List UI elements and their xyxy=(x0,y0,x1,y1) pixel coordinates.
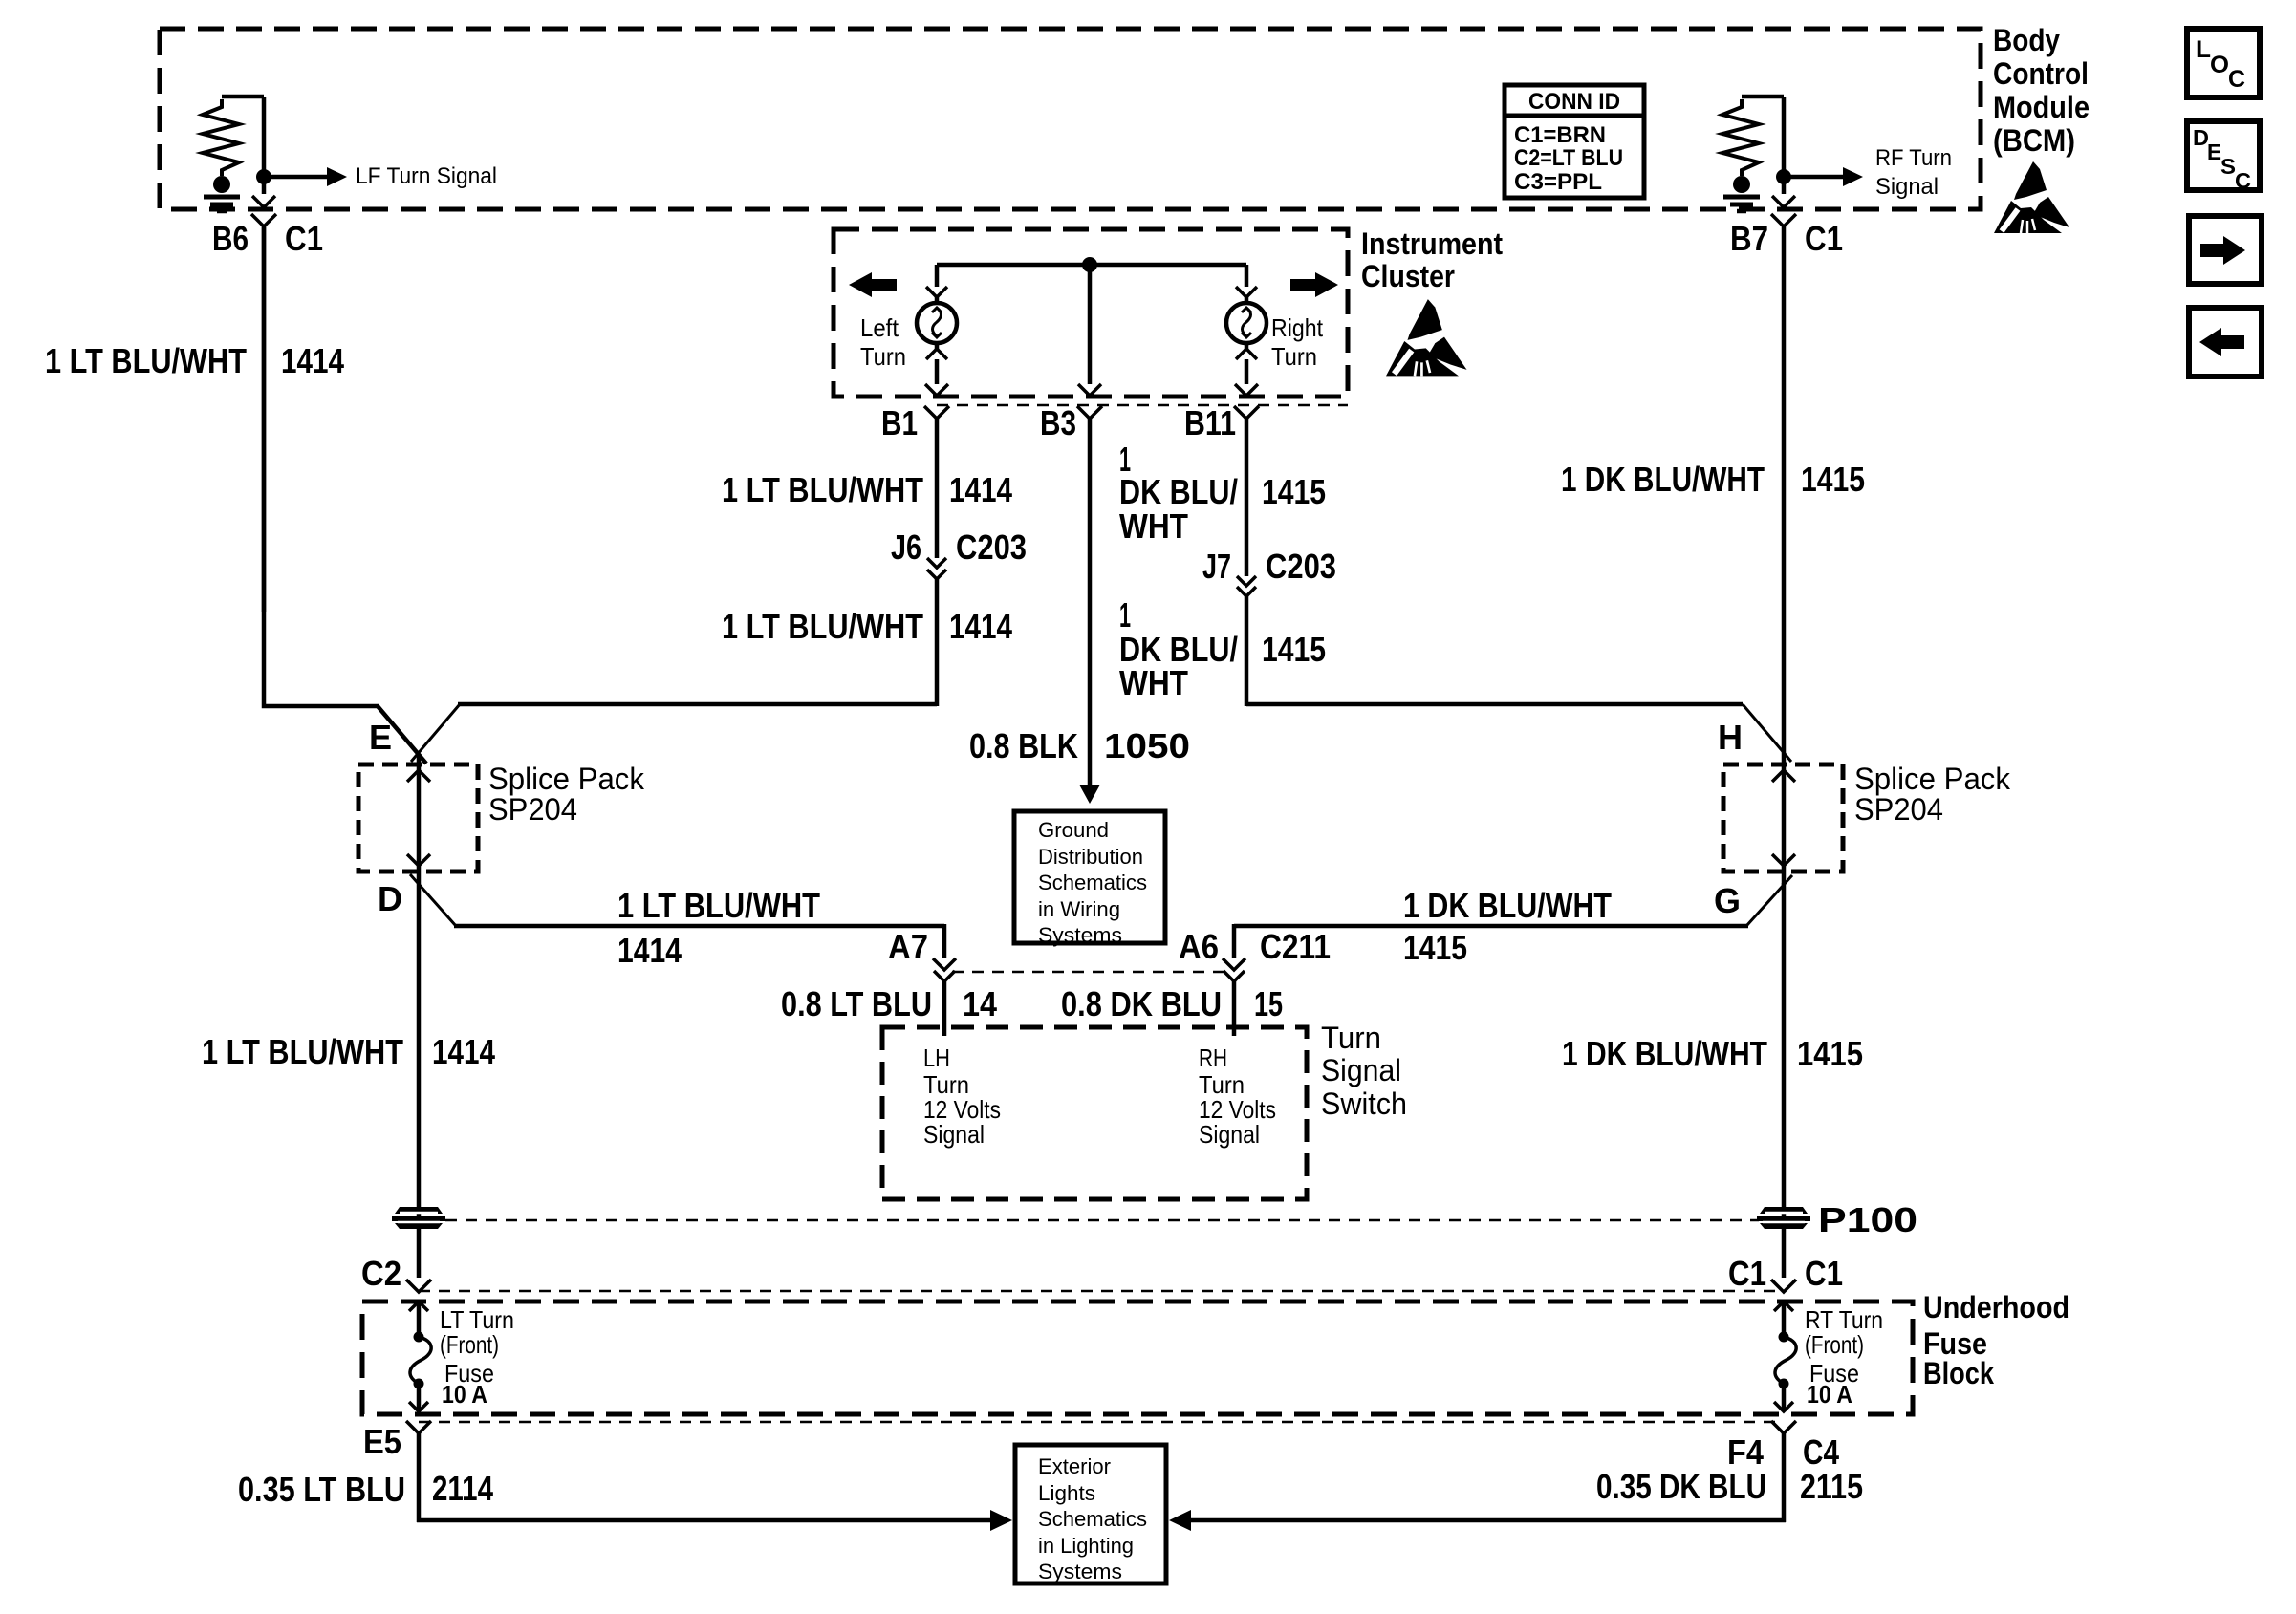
connector C2 left xyxy=(361,1254,431,1293)
svg-text:D: D xyxy=(378,879,402,918)
label 1 DK BLU/WHT 1415 lower right bus xyxy=(1562,1034,1863,1073)
svg-text:Turn: Turn xyxy=(1271,342,1317,371)
svg-text:C2=LT BLU: C2=LT BLU xyxy=(1514,145,1623,171)
svg-text:C1: C1 xyxy=(1805,219,1843,258)
svg-text:1415: 1415 xyxy=(1262,472,1326,511)
svg-text:0.8 DK BLU: 0.8 DK BLU xyxy=(1061,984,1222,1023)
svg-text:Ground: Ground xyxy=(1038,818,1109,842)
wire 1415 right bus from B7 xyxy=(1782,226,1787,752)
wire left bus to E splice xyxy=(264,225,426,764)
svg-text:0.8 BLK: 0.8 BLK xyxy=(969,726,1078,765)
label RT Turn (Front) Fuse 10 A xyxy=(1805,1305,1883,1409)
wire D to A7 xyxy=(410,874,944,958)
svg-text:1414: 1414 xyxy=(617,931,682,970)
svg-text:1414: 1414 xyxy=(432,1032,495,1071)
junction dot LF xyxy=(256,169,271,184)
svg-text:C: C xyxy=(2235,168,2251,193)
svg-text:1415: 1415 xyxy=(1403,928,1467,967)
svg-text:Splice Pack: Splice Pack xyxy=(488,762,645,796)
Ground Distribution Schematics box xyxy=(1014,811,1165,947)
connector pin B11 xyxy=(1184,403,1259,442)
svg-text:C203: C203 xyxy=(1266,547,1336,586)
svg-text:1 LT BLU/WHT: 1 LT BLU/WHT xyxy=(617,886,820,925)
svg-text:C1: C1 xyxy=(285,219,323,258)
wire BCM right vertical B7 xyxy=(1782,97,1787,194)
fuse LT Turn (Front) Fuse 10 A xyxy=(409,1302,431,1411)
svg-text:Lights: Lights xyxy=(1038,1481,1095,1505)
resistor in BCM left (LF driver) xyxy=(203,97,264,176)
svg-text:C2: C2 xyxy=(361,1254,401,1293)
svg-text:1 DK BLU/WHT: 1 DK BLU/WHT xyxy=(1403,886,1612,925)
ESD symbol at Instrument Cluster xyxy=(1386,299,1467,376)
svg-text:0.35 LT BLU: 0.35 LT BLU xyxy=(238,1470,405,1509)
icon next-page arrow box xyxy=(2189,216,2262,284)
svg-text:WHT: WHT xyxy=(1119,506,1188,546)
wire B1 to J6 xyxy=(935,419,940,558)
svg-text:C: C xyxy=(2228,66,2245,93)
wire splice left vertical xyxy=(407,754,430,1278)
svg-text:(BCM): (BCM) xyxy=(1993,123,2075,158)
wire B3 to ground distribution xyxy=(1079,419,1100,804)
label P100 xyxy=(1818,1200,1917,1239)
label 0.8 DK BLU 15 xyxy=(1061,984,1283,1023)
icon DESC box xyxy=(2187,121,2260,193)
svg-text:Underhood: Underhood xyxy=(1923,1290,2069,1324)
svg-text:10 A: 10 A xyxy=(442,1380,487,1409)
wire B3 inside cluster xyxy=(1078,265,1101,396)
wire A6 into switch xyxy=(1232,981,1237,1036)
svg-text:H: H xyxy=(1718,718,1743,757)
svg-text:G: G xyxy=(1714,881,1741,920)
svg-text:Systems: Systems xyxy=(1038,1560,1122,1583)
icon prev-page arrow box xyxy=(2189,308,2262,377)
grommet P100 right xyxy=(1757,1207,1810,1229)
label Turn Signal Switch xyxy=(1321,1021,1407,1121)
svg-text:0.8 LT BLU: 0.8 LT BLU xyxy=(781,984,932,1023)
svg-text:(Front): (Front) xyxy=(1805,1330,1864,1359)
svg-text:A7: A7 xyxy=(888,927,928,966)
svg-text:1414: 1414 xyxy=(949,470,1012,509)
svg-text:Block: Block xyxy=(1923,1356,1994,1390)
cluster connector dashed line xyxy=(937,404,1348,407)
svg-text:(Front): (Front) xyxy=(440,1330,499,1359)
svg-text:B6: B6 xyxy=(212,219,249,258)
wire 2115 to exterior lights xyxy=(1169,1433,1786,1531)
label Splice Pack SP204 left xyxy=(488,762,645,827)
ground G-BCM-left xyxy=(204,176,240,211)
svg-text:C203: C203 xyxy=(956,527,1027,567)
label LH Turn 12 Volts Signal xyxy=(923,1044,1001,1149)
label 0.35 LT BLU 2114 xyxy=(238,1469,493,1509)
svg-text:WHT: WHT xyxy=(1119,663,1188,702)
svg-text:1 LT BLU/WHT: 1 LT BLU/WHT xyxy=(722,607,923,646)
wire A7 into switch xyxy=(942,981,947,1036)
right turn direction arrow icon xyxy=(1290,272,1338,297)
label 0.8 BLK 1050 xyxy=(969,726,1190,765)
wire J6 to E splice xyxy=(411,579,937,762)
svg-text:Body: Body xyxy=(1993,23,2060,57)
svg-text:C3=PPL: C3=PPL xyxy=(1514,169,1602,195)
wire RF Turn Signal arrow xyxy=(1784,145,1952,200)
label LT Turn (Front) Fuse 10 A xyxy=(440,1305,514,1409)
Instrument Cluster dashed box xyxy=(834,229,1348,397)
svg-text:2115: 2115 xyxy=(1800,1467,1863,1506)
Turn Signal Switch dashed box xyxy=(882,1027,1307,1199)
label 1 LT BLU/WHT 1414 row1 xyxy=(722,470,1012,509)
svg-text:Module: Module xyxy=(1993,90,2090,124)
svg-text:1: 1 xyxy=(1119,595,1131,635)
svg-text:Signal: Signal xyxy=(1875,174,1939,200)
connector J6 C203 xyxy=(891,527,1027,579)
resistor in BCM right (RF driver) xyxy=(1722,97,1784,176)
connector C211 dashed line xyxy=(952,971,1228,974)
junction dot B3 bus xyxy=(1082,257,1097,272)
label Right Turn xyxy=(1271,313,1324,371)
svg-text:Control: Control xyxy=(1993,56,2089,91)
CONN ID table xyxy=(1505,85,1644,198)
svg-text:Switch: Switch xyxy=(1321,1087,1407,1121)
svg-text:14: 14 xyxy=(963,984,997,1023)
svg-text:B3: B3 xyxy=(1040,403,1076,442)
connector A7 C211 xyxy=(888,927,956,981)
label 1 DK BLU/WHT 1415 on G-A6 wire xyxy=(1403,886,1612,967)
wire G to A6 xyxy=(1234,875,1792,958)
svg-text:J6: J6 xyxy=(891,527,921,567)
svg-text:SP204: SP204 xyxy=(488,792,577,827)
svg-text:1 LT BLU/WHT: 1 LT BLU/WHT xyxy=(45,341,247,380)
label 1 DK BLU/WHT 1415 row2 xyxy=(1119,595,1326,702)
svg-text:1 LT BLU/WHT: 1 LT BLU/WHT xyxy=(722,470,923,509)
connector A6 C211 xyxy=(1179,927,1331,981)
Splice Pack SP204 right box xyxy=(1723,764,1843,872)
Exterior Lights Schematics box xyxy=(1015,1445,1166,1583)
svg-text:Distribution: Distribution xyxy=(1038,845,1143,869)
label Instrument Cluster xyxy=(1361,226,1503,293)
label 0.8 LT BLU 14 xyxy=(781,984,997,1023)
svg-text:1415: 1415 xyxy=(1797,1034,1863,1073)
svg-text:J7: J7 xyxy=(1202,547,1231,586)
svg-text:1415: 1415 xyxy=(1262,630,1326,669)
label Splice Pack SP204 right xyxy=(1854,762,2011,827)
svg-text:A6: A6 xyxy=(1179,927,1219,966)
node D xyxy=(378,879,402,918)
svg-text:C1=BRN: C1=BRN xyxy=(1514,122,1606,148)
wire cluster top bus xyxy=(937,263,1246,268)
wire 2114 to exterior lights xyxy=(417,1433,1012,1531)
svg-text:1 DK BLU/WHT: 1 DK BLU/WHT xyxy=(1562,1034,1767,1073)
svg-text:in Lighting: in Lighting xyxy=(1038,1534,1134,1558)
connector pin B3 xyxy=(1040,403,1102,442)
svg-text:E5: E5 xyxy=(363,1422,401,1461)
Body Control Module (BCM) dashed box xyxy=(160,29,1981,209)
node E xyxy=(369,718,392,757)
svg-text:Splice Pack: Splice Pack xyxy=(1854,762,2011,796)
label 1 LT BLU/WHT 1414 on D-A7 wire xyxy=(617,886,820,970)
label 1 LT BLU/WHT 1414 left bus xyxy=(45,341,344,380)
svg-text:1 LT BLU/WHT: 1 LT BLU/WHT xyxy=(202,1032,403,1071)
svg-text:C211: C211 xyxy=(1260,927,1331,966)
wire BCM left vertical B6 xyxy=(262,97,267,194)
connector B7 C1 at BCM bottom right xyxy=(1730,196,1843,258)
wire B11 to J7 xyxy=(1245,419,1249,576)
svg-text:Instrument: Instrument xyxy=(1361,226,1503,261)
svg-text:in Wiring: in Wiring xyxy=(1038,897,1120,921)
svg-text:Schematics: Schematics xyxy=(1038,871,1147,894)
label Body Control Module (BCM) xyxy=(1993,23,2090,158)
lamp Right Turn indicator xyxy=(1226,265,1267,396)
svg-text:CONN ID: CONN ID xyxy=(1528,89,1620,115)
label 1 DK BLU/WHT 1415 right bus xyxy=(1561,460,1865,499)
svg-text:RH: RH xyxy=(1199,1044,1227,1072)
wire 1414 left bus from B6 xyxy=(262,226,267,612)
Splice Pack SP204 left box xyxy=(358,764,478,872)
svg-text:L: L xyxy=(2196,36,2211,63)
connector dashed line fuse block bottom xyxy=(419,1421,1784,1424)
lamp Left Turn indicator xyxy=(917,265,957,396)
svg-text:LF Turn Signal: LF Turn Signal xyxy=(356,163,497,189)
svg-text:10 A: 10 A xyxy=(1807,1380,1852,1409)
svg-text:E: E xyxy=(369,718,392,757)
wire splice right vertical xyxy=(1772,752,1795,885)
node H xyxy=(1718,718,1743,757)
icon LOC box xyxy=(2187,29,2260,97)
svg-text:1 DK BLU/WHT: 1 DK BLU/WHT xyxy=(1561,460,1765,499)
label Underhood Fuse Block xyxy=(1923,1290,2069,1390)
wire right bus G down to fuse block xyxy=(1782,883,1787,1278)
label RH Turn 12 Volts Signal xyxy=(1199,1044,1276,1149)
svg-text:0.35 DK BLU: 0.35 DK BLU xyxy=(1596,1467,1766,1506)
svg-text:Turn: Turn xyxy=(1321,1021,1381,1055)
P100 pass-through dashed line xyxy=(445,1219,1759,1222)
label 1 LT BLU/WHT 1414 row2 xyxy=(722,607,1012,646)
label 1 DK BLU/WHT 1415 row1 (B11) xyxy=(1119,440,1326,546)
wire J7 to H splice xyxy=(1246,596,1791,762)
connector dashed line fuse block top xyxy=(419,1290,1784,1293)
svg-text:Signal: Signal xyxy=(1321,1053,1401,1087)
svg-text:DK BLU/: DK BLU/ xyxy=(1119,472,1238,511)
ground G-BCM-right xyxy=(1723,176,1760,211)
fuse RT Turn (Front) Fuse 10 A xyxy=(1774,1302,1796,1411)
svg-text:P100: P100 xyxy=(1818,1200,1917,1239)
connector E5 xyxy=(363,1421,431,1461)
svg-text:Systems: Systems xyxy=(1038,923,1122,947)
svg-text:Schematics: Schematics xyxy=(1038,1507,1147,1531)
svg-text:1414: 1414 xyxy=(949,607,1012,646)
connector C1 C1 right xyxy=(1728,1254,1843,1293)
label 1 LT BLU/WHT 1414 lower left bus xyxy=(202,1032,495,1071)
connector pin B1 xyxy=(881,403,949,442)
connector J7 C203 xyxy=(1202,547,1336,596)
ESD symbol at BCM xyxy=(1994,161,2069,233)
svg-text:B11: B11 xyxy=(1184,403,1236,442)
connector F4 C4 xyxy=(1727,1421,1839,1472)
svg-text:1415: 1415 xyxy=(1801,460,1865,499)
svg-text:F4: F4 xyxy=(1727,1432,1764,1472)
label Left Turn xyxy=(860,313,906,371)
svg-text:E: E xyxy=(2207,140,2221,164)
svg-text:B7: B7 xyxy=(1730,219,1768,258)
svg-text:Turn: Turn xyxy=(860,342,906,371)
svg-text:C4: C4 xyxy=(1803,1432,1839,1472)
svg-text:Signal: Signal xyxy=(1199,1120,1260,1149)
connector B6 C1 at BCM bottom xyxy=(212,196,323,258)
svg-text:SP204: SP204 xyxy=(1854,792,1943,827)
grommet P100 left xyxy=(392,1207,445,1229)
svg-text:2114: 2114 xyxy=(432,1469,493,1508)
svg-text:LH: LH xyxy=(923,1044,950,1072)
svg-text:1414: 1414 xyxy=(281,341,344,380)
label 0.35 DK BLU 2115 xyxy=(1596,1467,1863,1506)
wire LF Turn Signal arrow xyxy=(264,163,497,189)
svg-text:15: 15 xyxy=(1254,984,1283,1023)
junction dot RF xyxy=(1776,169,1791,184)
svg-text:Signal: Signal xyxy=(923,1120,985,1149)
svg-text:Exterior: Exterior xyxy=(1038,1454,1111,1478)
svg-text:Cluster: Cluster xyxy=(1361,259,1455,293)
svg-text:Right: Right xyxy=(1271,313,1324,342)
svg-text:1050: 1050 xyxy=(1104,726,1190,765)
node G xyxy=(1714,881,1741,920)
svg-text:Left: Left xyxy=(860,313,899,342)
svg-text:B1: B1 xyxy=(881,403,918,442)
svg-text:RF Turn: RF Turn xyxy=(1875,145,1952,171)
svg-text:C1: C1 xyxy=(1728,1254,1766,1293)
svg-text:O: O xyxy=(2210,52,2229,78)
svg-text:C1: C1 xyxy=(1805,1254,1843,1293)
svg-text:S: S xyxy=(2220,154,2236,179)
Underhood Fuse Block dashed box xyxy=(362,1302,1913,1414)
left turn direction arrow icon xyxy=(849,272,897,297)
